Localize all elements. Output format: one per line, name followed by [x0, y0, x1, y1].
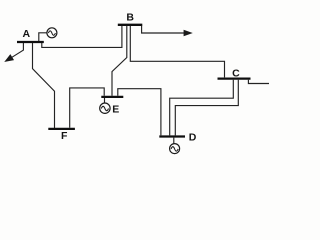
generator G2 at bus E [100, 103, 110, 113]
load arrow at B [142, 26, 192, 36]
bus E [101, 96, 123, 98]
wire generator riser at A [39, 33, 47, 41]
generator G3 at bus D [170, 144, 180, 154]
wire line C-D upper [170, 80, 234, 136]
svg-text:E: E [112, 103, 119, 115]
wire line C to east system [248, 80, 269, 84]
wire line A-F [33, 43, 55, 128]
bus B [118, 24, 143, 26]
bus D [159, 135, 185, 137]
wire line B-C [130, 26, 224, 78]
bus F [48, 128, 75, 130]
svg-text:D: D [189, 132, 197, 144]
generator G1 at bus A [47, 28, 57, 38]
wire line F-E [70, 88, 105, 128]
wire generator stub at E [104, 98, 106, 103]
wire line E-D [118, 89, 161, 136]
wire line C-D lower [175, 80, 238, 136]
load arrow at A [5, 43, 23, 61]
wire line A-B [42, 26, 122, 48]
svg-text:F: F [61, 130, 68, 142]
svg-text:A: A [23, 28, 31, 40]
bus C [218, 77, 251, 79]
bus A [17, 41, 44, 43]
wire line B-E [112, 26, 127, 96]
svg-text:B: B [126, 12, 134, 24]
wire generator stub at D [173, 138, 175, 144]
svg-text:C: C [232, 68, 240, 80]
